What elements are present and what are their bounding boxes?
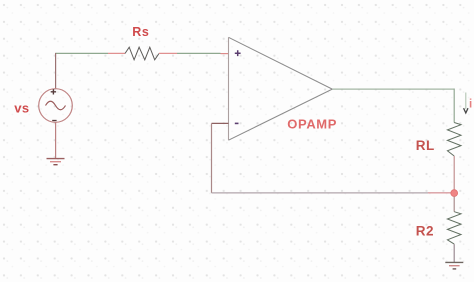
vs minus mark: [52, 120, 56, 122]
wire Rs left pin lead: [108, 52, 125, 54]
current arrow i: [465, 93, 467, 110]
wire feedback salmon segment near junction: [428, 192, 451, 194]
wire feedback horizontal to junction: [212, 192, 451, 194]
ground below vs: [47, 158, 65, 160]
wire op-amp plus input pin lead: [221, 53, 230, 55]
wire RL bottom lead to junction: [453, 156, 455, 190]
vs plus mark: [51, 89, 56, 94]
resistor Rs: [125, 47, 159, 60]
svg-text:OPAMP: OPAMP: [287, 116, 337, 131]
svg-text:i: i: [469, 99, 472, 111]
wire net1 top horizontal green segment left: [56, 52, 108, 54]
wire from net1 down to vs plus terminal: [55, 53, 57, 89]
wire op-amp output to right corner: [332, 88, 454, 90]
voltage source vs circle: [39, 89, 73, 123]
svg-text:vs: vs: [14, 100, 29, 115]
op-amp plus input mark: [235, 50, 241, 56]
junction node dot: [451, 190, 458, 197]
wire vs minus terminal to ground: [55, 122, 57, 158]
wire junction down to R2: [453, 196, 455, 211]
op-amp minus input mark: [235, 122, 239, 124]
svg-text:Rs: Rs: [132, 25, 149, 39]
wire Rs right pin lead: [159, 52, 177, 54]
svg-text:RL: RL: [416, 138, 435, 153]
ground below R2: [445, 261, 463, 263]
wire feedback vertical: [211, 123, 213, 192]
wire right vertical down to RL: [453, 89, 455, 123]
resistor RL: [447, 123, 461, 157]
op-amp U1 triangle: [229, 37, 333, 140]
svg-text:R2: R2: [416, 224, 434, 239]
resistor R2: [447, 212, 461, 244]
wire R2 bottom to ground: [453, 244, 455, 262]
vs sine wave: [46, 101, 66, 110]
wire op-amp minus input pin lead: [212, 122, 229, 124]
wire net1 top horizontal green segment right: [177, 52, 221, 54]
